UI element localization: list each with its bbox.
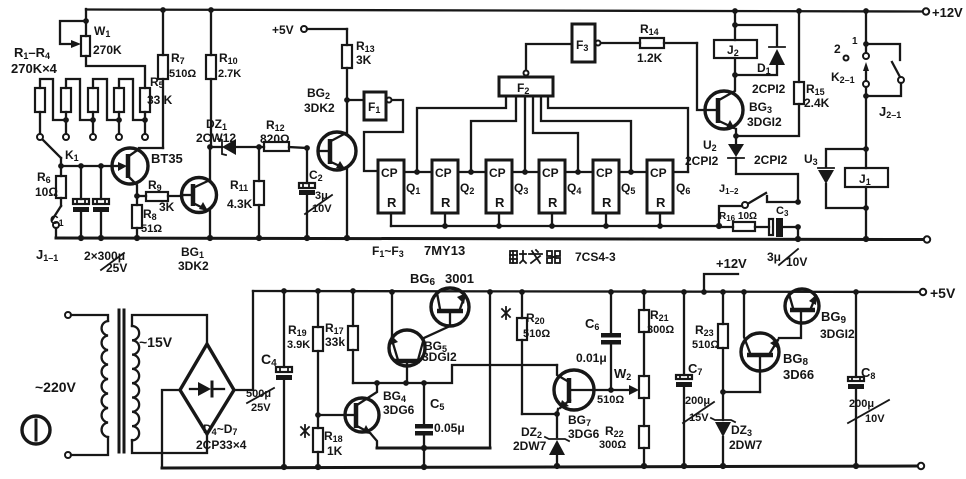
capacitor C6 [576, 292, 621, 390]
reference mark by R18 [301, 425, 309, 437]
capacitor C3 [767, 205, 807, 269]
resistor R5 [140, 88, 150, 112]
svg-text:270K: 270K [93, 43, 122, 57]
svg-text:33k: 33k [325, 335, 345, 349]
transformer T primary terminals [65, 312, 71, 318]
resistor R10 [210, 10, 212, 55]
resistor R8 [136, 196, 138, 205]
relay coil J1 [845, 149, 888, 239]
capacitor C8 [848, 292, 889, 466]
svg-text:10V: 10V [865, 413, 885, 425]
wire F2 input 3 to Q3 [524, 96, 526, 172]
svg-text:CP: CP [489, 166, 506, 180]
wire bottom section +rail [253, 291, 920, 292]
svg-text:~220V: ~220V [35, 379, 77, 395]
svg-text:CP: CP [542, 166, 559, 180]
svg-text:R: R [656, 195, 666, 210]
svg-text:1: 1 [852, 36, 858, 47]
zener DZ2 [513, 414, 569, 467]
potentiometer W2 [593, 366, 649, 406]
+12V tap [704, 256, 747, 292]
relay coil J2 [714, 11, 757, 75]
switch K1 tap contacts [39, 112, 41, 134]
wire F2 input 1 to Q1 [417, 96, 506, 172]
terminal +12V [923, 8, 929, 14]
svg-text:1.2K: 1.2K [637, 51, 663, 65]
node DZ1/R11/R12 [256, 144, 262, 150]
svg-text:+5V: +5V [272, 23, 294, 37]
svg-text:CP: CP [435, 166, 452, 180]
svg-text:51Ω: 51Ω [141, 223, 162, 235]
svg-text:+12V: +12V [716, 256, 747, 271]
transistor BG8 [741, 292, 814, 392]
wire bottom section ground bus [162, 466, 917, 468]
svg-text:510Ω: 510Ω [597, 394, 624, 406]
svg-text:BT35: BT35 [151, 151, 183, 166]
svg-text:10V: 10V [312, 203, 332, 215]
counter block 3 [486, 160, 512, 213]
switch K1 arm [43, 140, 61, 158]
svg-text:0.05μ: 0.05μ [434, 421, 465, 435]
terminal +5V [301, 26, 307, 32]
node rail-R10 [208, 7, 214, 13]
wire chain R1 top to R2 bottom [40, 79, 66, 120]
reference mark by R20 [502, 307, 510, 319]
wire bridge minus to ground bus [162, 390, 180, 468]
svg-text:CP: CP [381, 166, 398, 180]
svg-text:3K: 3K [159, 200, 175, 214]
svg-text:3DGI2: 3DGI2 [820, 327, 855, 341]
svg-text:CP: CP [596, 166, 613, 180]
node rail-R15 [796, 8, 802, 14]
node R10/DZ1/BG1 collector [207, 144, 213, 150]
svg-text:25V: 25V [251, 402, 271, 414]
svg-text:3001: 3001 [445, 271, 474, 286]
svg-text:0.01μ: 0.01μ [576, 351, 607, 365]
switch K2-1 [831, 11, 869, 149]
svg-text:R: R [441, 195, 451, 210]
wire R19/R18 node to BG4 base [318, 414, 345, 416]
wire F2 input 6 to Q6 [548, 96, 688, 172]
capacitor C5 [415, 383, 465, 467]
svg-text:2CPI2: 2CPI2 [754, 153, 788, 167]
svg-text:3DG6: 3DG6 [568, 427, 600, 441]
svg-text:2CW12: 2CW12 [196, 131, 236, 145]
svg-text:2.4K: 2.4K [804, 96, 830, 110]
transistor BT35 [112, 148, 183, 196]
gate F1 [347, 92, 403, 171]
wire Q3 [512, 171, 539, 173]
svg-text:500μ: 500μ [246, 388, 271, 400]
svg-text:510Ω: 510Ω [692, 339, 719, 351]
svg-text:R1–R4: R1–R4 [14, 45, 50, 61]
svg-text:R: R [602, 195, 612, 210]
resistor R4 [114, 88, 124, 112]
gate F2 [499, 44, 572, 96]
resistor R17 [325, 291, 358, 383]
svg-text:15V: 15V [689, 412, 709, 424]
wire Q5 [619, 171, 647, 173]
counter block 1 [378, 160, 404, 213]
resistor R18 [313, 415, 343, 467]
node BT35 lower base / R8 / R9 [134, 193, 140, 199]
capacitor C1 (two electrolytics) [80, 166, 82, 199]
node BG2 collector / F1 input [344, 97, 350, 103]
svg-text:3μ: 3μ [767, 250, 781, 264]
wire top +12V rail [86, 10, 922, 12]
zener DZ3 [711, 418, 763, 467]
node BG5 collector / +rail [389, 289, 395, 295]
svg-text:200μ: 200μ [685, 395, 710, 407]
resistor R21 [639, 292, 674, 376]
page marker 1 [22, 416, 50, 444]
diode D1 [735, 25, 786, 96]
diode U3 [754, 149, 866, 208]
wire R14 to BG3 base [697, 43, 705, 110]
gate F3 [572, 24, 640, 62]
bridge rectifier D4-D7 [180, 344, 247, 452]
svg-text:7MY13: 7MY13 [424, 243, 465, 258]
svg-text:510Ω: 510Ω [169, 68, 196, 80]
wire chain R4 top to R5 bottom [119, 79, 145, 120]
svg-text:820Ω: 820Ω [260, 132, 290, 146]
node J2/D1 top [732, 22, 738, 28]
wire Q6 [673, 171, 688, 173]
resistor R7 [162, 10, 164, 55]
svg-text:1K: 1K [327, 444, 343, 458]
svg-text:510Ω: 510Ω [523, 328, 550, 340]
wire chain R3 top to R4 bottom [93, 79, 119, 120]
resistor R19 [287, 291, 323, 415]
svg-text:10V: 10V [786, 255, 807, 269]
transformer primary winding [71, 315, 108, 455]
svg-text:~15V: ~15V [139, 334, 173, 350]
svg-text:3.9K: 3.9K [287, 339, 310, 351]
wire BG4 emitter to +rail riser [377, 447, 490, 450]
node J1/U3 bottom [863, 205, 869, 211]
svg-text:4.3K: 4.3K [227, 197, 253, 211]
node rail-K2 [863, 8, 869, 14]
svg-text:7CS4-3: 7CS4-3 [575, 250, 616, 264]
svg-text:25V: 25V [106, 261, 127, 275]
resistor R23 [692, 292, 728, 420]
counter block 5 [593, 160, 619, 213]
wire F2 input 2 to Q2 [471, 96, 516, 172]
resistor R2 [61, 88, 71, 112]
resistor R14 [637, 22, 697, 65]
resistor R15 [736, 11, 830, 136]
label trigger 7CS4-3 (hanzi) [510, 250, 560, 263]
svg-text:2CPI2: 2CPI2 [685, 154, 719, 168]
node J1/U3 top [863, 146, 869, 152]
svg-text:2: 2 [834, 42, 841, 56]
resistor R9 [137, 195, 146, 197]
transistor BG9 [785, 289, 855, 341]
wire C3 node to bus [797, 227, 799, 239]
transistor BG4 [345, 383, 415, 448]
resistor R6 [60, 166, 62, 176]
svg-text:2CPI2: 2CPI2 [752, 82, 786, 96]
wire mid bus (0V of timer section) [56, 238, 923, 240]
terminal bottom right [918, 463, 924, 469]
wire south node [353, 365, 557, 383]
svg-text:300Ω: 300Ω [647, 324, 674, 336]
terminal +5V [920, 289, 926, 295]
switch J1-1 [60, 198, 62, 206]
node rail-J2 [732, 8, 738, 14]
transistor BG5 [389, 292, 457, 383]
svg-text:2CP33×4: 2CP33×4 [196, 438, 247, 452]
transistor BG1 [178, 147, 217, 273]
node C3 right [795, 224, 801, 230]
svg-text:3DGI2: 3DGI2 [422, 350, 457, 364]
svg-text:3DG6: 3DG6 [383, 403, 415, 417]
capacitor C2 [299, 145, 332, 238]
wire Q2 [458, 171, 486, 173]
svg-text:CP: CP [650, 166, 667, 180]
node U2 / J1-2 [795, 199, 801, 205]
wire bridge plus to +rail [234, 291, 253, 390]
svg-text:+12V: +12V [932, 5, 963, 20]
capacitor C7 [676, 292, 714, 467]
counter block 2 [432, 160, 458, 213]
transistor BG6 [410, 271, 474, 326]
node BG7 emitter / R20 / DZ2 [554, 411, 560, 417]
node rail-R7 [160, 7, 166, 13]
node J2/D1 bottom / BG3 collector [732, 72, 738, 78]
resistor R12 [259, 118, 307, 151]
resistor R1 [35, 88, 45, 112]
svg-text:2DW7: 2DW7 [729, 438, 763, 452]
resistor R11 [227, 147, 264, 238]
svg-text:R: R [548, 195, 558, 210]
resistor R22 [599, 398, 649, 467]
resistor R20 [517, 292, 557, 414]
svg-text:3D66: 3D66 [783, 367, 814, 382]
diode U2 [685, 136, 798, 202]
svg-text:R: R [495, 195, 505, 210]
resistor R3 [88, 88, 98, 112]
resistor R13 [342, 29, 375, 100]
wire reset line [390, 213, 392, 226]
node BG8 collector / +rail [741, 289, 747, 295]
node riser / +rail [487, 289, 493, 295]
wire chain R2 top to R3 bottom [66, 79, 93, 120]
capacitor C4 [246, 291, 292, 467]
transistor BG2 [304, 86, 356, 238]
wire Q1 [404, 171, 432, 173]
svg-text:2DW7: 2DW7 [513, 439, 547, 453]
svg-text:3DK2: 3DK2 [178, 259, 209, 273]
counter block 6 [647, 160, 673, 213]
svg-text:3K: 3K [356, 53, 372, 67]
zener diode DZ1 2CW12 [196, 117, 259, 155]
node BG3 emitter / R15 / U2 [733, 133, 739, 139]
wire Q4 [565, 171, 593, 173]
wire K1 node to BT35 emitter [61, 165, 112, 167]
wire R23 node to BG8 base [723, 391, 760, 393]
svg-text:200μ: 200μ [849, 398, 874, 410]
transistor BG3 [705, 75, 782, 136]
potentiometer W1 [60, 9, 145, 88]
counter block 4 [539, 160, 565, 213]
resistor R16 [719, 211, 769, 231]
svg-text:270K×4: 270K×4 [11, 61, 58, 76]
terminal mid bus right [924, 236, 930, 242]
svg-text:10Ω: 10Ω [35, 185, 58, 199]
switch J1-2 [719, 183, 798, 226]
svg-text:33 K: 33 K [147, 93, 173, 107]
transformer secondary winding [132, 315, 207, 453]
wire F2 input 4 to Q4 [533, 96, 578, 172]
switch J2-1 [866, 44, 904, 120]
svg-text:+5V: +5V [930, 285, 956, 301]
svg-text:300Ω: 300Ω [599, 439, 626, 451]
svg-text:R16 10Ω: R16 10Ω [719, 211, 757, 223]
svg-text:3DK2: 3DK2 [304, 101, 335, 115]
svg-text:D4~D7: D4~D7 [203, 422, 237, 437]
wire F2 input 5 to Q5 [541, 96, 631, 172]
svg-text:3DGI2: 3DGI2 [747, 115, 782, 129]
transistor BG7 [554, 365, 600, 441]
svg-text:R: R [387, 195, 397, 210]
svg-text:2.7K: 2.7K [218, 68, 241, 80]
transformer core [118, 310, 121, 452]
node reset line / R16 / J1-2 [716, 223, 722, 229]
